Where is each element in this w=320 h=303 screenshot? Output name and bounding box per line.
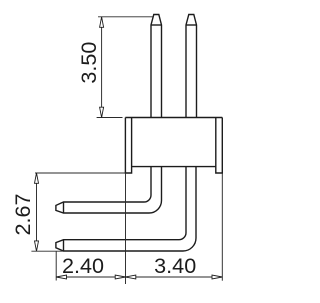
arrow 2.40 left xyxy=(56,275,66,279)
arrow 3.40 right xyxy=(212,275,222,279)
dim 3.40 right extension line xyxy=(221,173,223,281)
dim 3.50 bottom extension line xyxy=(97,117,123,119)
arrow 3.50 up xyxy=(100,17,104,27)
dim 2.67 dimension line xyxy=(36,173,38,251)
dim 2.40/3.40 dimension line xyxy=(56,276,222,278)
svg-text:3.40: 3.40 xyxy=(154,253,196,278)
pin P1 right-angle lead xyxy=(56,167,162,213)
arrow 3.40 left xyxy=(126,275,136,279)
svg-text:2.40: 2.40 xyxy=(62,253,104,278)
dim 2.40 left extension line xyxy=(55,251,57,280)
body top edge xyxy=(125,117,222,119)
dim 3.50 top extension line xyxy=(98,16,153,18)
pin P2 right-angle lead xyxy=(56,167,196,251)
body bottom edge xyxy=(132,166,216,168)
svg-text:3.50: 3.50 xyxy=(76,42,101,84)
arrow 2.67 up xyxy=(35,173,39,183)
pin P1 vertical post xyxy=(151,15,162,118)
arrow 3.50 down xyxy=(100,107,104,117)
body left end-cap xyxy=(125,118,131,174)
dim 2.40/3.40 shared extension line xyxy=(125,173,127,284)
arrow 2.40 right xyxy=(115,275,125,279)
dim 2.67 bottom extension line xyxy=(31,250,63,252)
dim 2.67 top extension line xyxy=(35,172,125,174)
body right end-cap xyxy=(216,118,223,174)
pin P2 vertical post xyxy=(186,15,197,118)
arrow 2.67 down xyxy=(35,241,39,251)
svg-text:2.67: 2.67 xyxy=(10,193,35,235)
dim 3.50 dimension line xyxy=(101,17,103,118)
